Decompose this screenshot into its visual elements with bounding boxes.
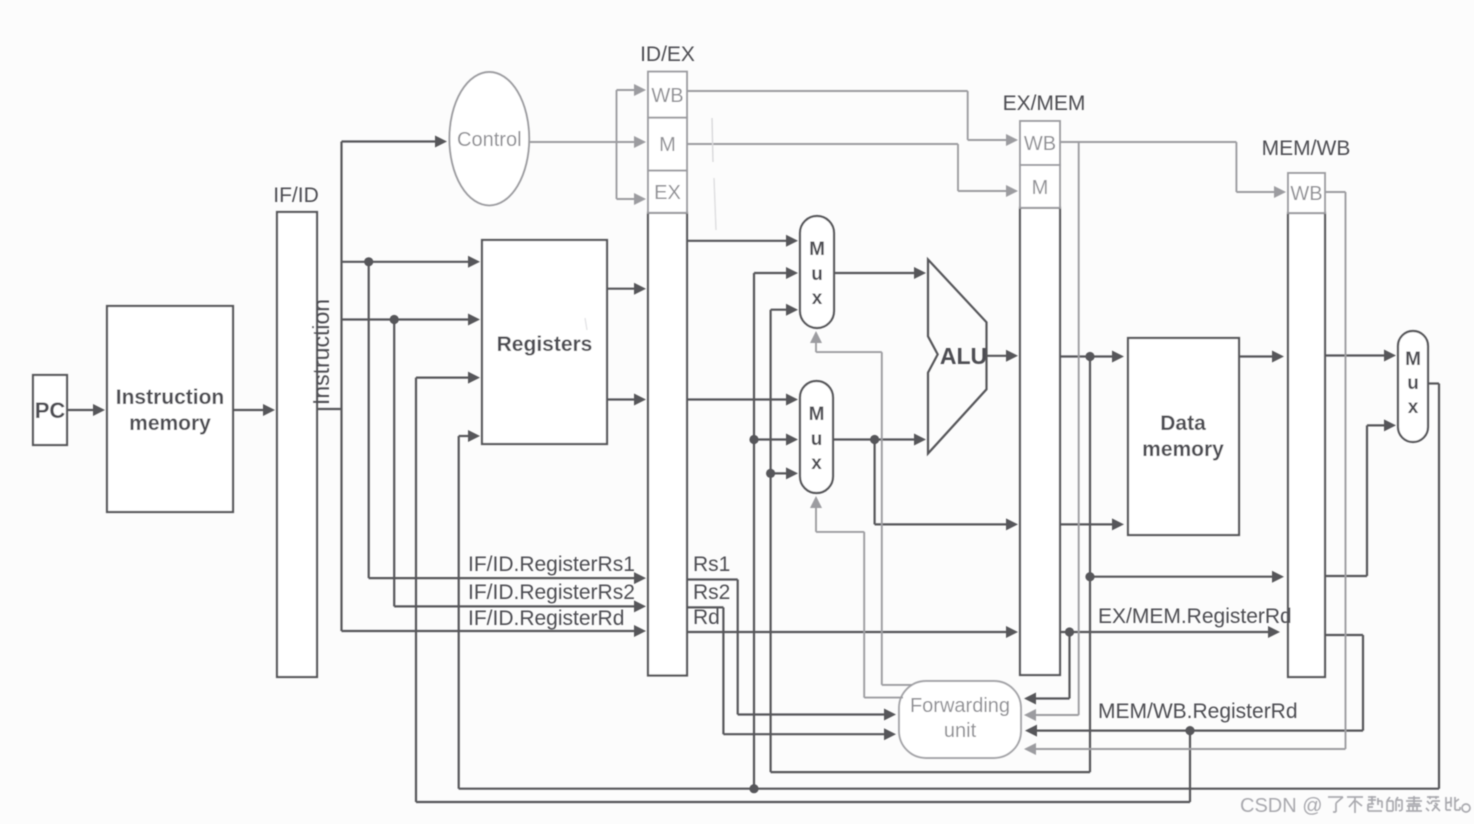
svg-text:WB: WB	[1290, 183, 1322, 205]
svg-text:WB: WB	[1024, 133, 1056, 155]
svg-text:M: M	[809, 239, 825, 260]
svg-text:x: x	[812, 288, 823, 309]
svg-text:EX/MEM.RegisterRd: EX/MEM.RegisterRd	[1098, 605, 1292, 628]
svg-text:Rs2: Rs2	[693, 581, 730, 604]
svg-text:WB: WB	[651, 85, 683, 107]
svg-text:u: u	[1407, 373, 1419, 394]
svg-text:MEM/WB.RegisterRd: MEM/WB.RegisterRd	[1098, 700, 1298, 723]
svg-text:unit: unit	[944, 720, 977, 742]
svg-text:Instruction: Instruction	[116, 386, 225, 409]
svg-text:u: u	[811, 429, 823, 450]
svg-text:IF/ID.RegisterRd: IF/ID.RegisterRd	[468, 607, 624, 630]
svg-text:PC: PC	[35, 398, 66, 423]
svg-text:memory: memory	[129, 412, 211, 435]
svg-text:EX: EX	[654, 182, 681, 204]
svg-text:u: u	[811, 264, 823, 285]
svg-text:Forwarding: Forwarding	[910, 695, 1010, 717]
svg-text:M: M	[1032, 177, 1049, 199]
svg-text:CSDN @: CSDN @	[1240, 795, 1323, 817]
svg-text:Rd: Rd	[693, 606, 720, 629]
svg-text:MEM/WB: MEM/WB	[1262, 137, 1351, 160]
svg-text:M: M	[1405, 349, 1421, 370]
svg-text:M: M	[659, 134, 676, 156]
svg-text:ID/EX: ID/EX	[640, 43, 695, 66]
svg-text:IF/ID.RegisterRs1: IF/ID.RegisterRs1	[468, 553, 635, 576]
svg-text:M: M	[809, 404, 825, 425]
svg-text:Instruction: Instruction	[308, 299, 334, 405]
svg-text:x: x	[811, 453, 822, 474]
svg-text:Registers: Registers	[497, 333, 593, 356]
svg-text:IF/ID: IF/ID	[273, 184, 319, 207]
svg-text:Control: Control	[457, 129, 521, 151]
svg-text:Data: Data	[1160, 412, 1206, 435]
svg-text:memory: memory	[1142, 438, 1224, 461]
svg-text:x: x	[1408, 397, 1419, 418]
svg-text:Rs1: Rs1	[693, 553, 730, 576]
svg-text:ALU: ALU	[940, 343, 987, 369]
svg-text:IF/ID.RegisterRs2: IF/ID.RegisterRs2	[468, 581, 635, 604]
svg-text:EX/MEM: EX/MEM	[1003, 92, 1086, 115]
